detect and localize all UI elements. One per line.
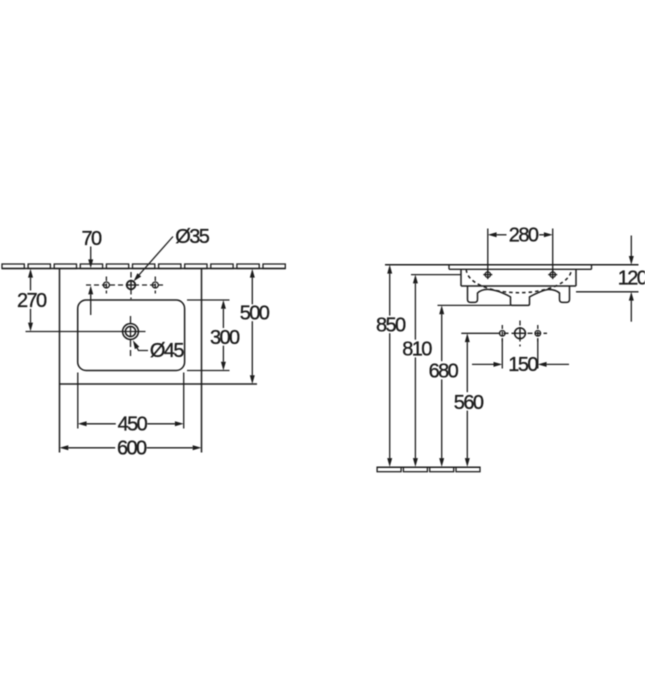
dimension 300 (plan view) bbox=[221, 300, 226, 371]
tap hole centerlines vertical (plan view) bbox=[106, 272, 155, 299]
dimension 810 extension line (front view) bbox=[411, 274, 461, 276]
dimension 560 (front view) bbox=[465, 333, 470, 467]
tap hole centerline horizontal (front view) bbox=[461, 332, 547, 334]
tap hole center (front view) bbox=[515, 328, 526, 339]
floor hatch bricks (front view) bbox=[377, 467, 480, 472]
drain centerline horizontal (plan view) bbox=[26, 331, 146, 333]
svg-text:270: 270 bbox=[17, 290, 47, 312]
tap hole left (front view) bbox=[500, 331, 506, 337]
dimension 500 (plan view) bbox=[250, 269, 255, 384]
svg-text:Ø35: Ø35 bbox=[175, 226, 209, 248]
svg-text:600: 600 bbox=[117, 437, 147, 459]
svg-text:70: 70 bbox=[81, 228, 102, 250]
svg-text:450: 450 bbox=[118, 413, 148, 435]
svg-text:560: 560 bbox=[454, 392, 484, 414]
drain centerline vertical (plan view) bbox=[130, 316, 132, 356]
svg-text:150: 150 bbox=[508, 354, 538, 376]
dimension 70 (plan view) bbox=[88, 247, 93, 316]
dimension 270 (plan view) bbox=[28, 269, 33, 332]
tap hole centerlines vertical (front view) bbox=[502, 321, 538, 347]
fixing hole right (front view) bbox=[548, 270, 557, 279]
svg-text:680: 680 bbox=[429, 361, 459, 383]
inner bowl rounded rectangle (plan view) bbox=[78, 300, 185, 371]
svg-text:300: 300 bbox=[210, 327, 240, 349]
dimension 120 bottom extension (front view) bbox=[576, 291, 639, 293]
fixing hole left (front view) bbox=[483, 270, 492, 279]
tap hole center cross (plan view) bbox=[126, 280, 136, 290]
dimension 280 extension lines (front view) bbox=[488, 229, 553, 272]
dimension 600 (plan view) bbox=[60, 445, 202, 450]
svg-text:850: 850 bbox=[376, 314, 406, 336]
dimension 680 extension line (front view) bbox=[438, 304, 511, 306]
dimension 680 (front view) bbox=[439, 305, 444, 467]
dimension 450 extension lines (plan view) bbox=[78, 373, 184, 429]
dimension 850 (front view) bbox=[387, 265, 392, 467]
washbasin outer rectangle (plan view) bbox=[60, 269, 258, 453]
tap hole centerline horizontal (plan view) bbox=[86, 284, 165, 286]
dimension 300 extension lines (plan view) bbox=[187, 300, 230, 371]
hidden bowl arc dashed (front view) bbox=[466, 269, 571, 292]
tap hole right (plan view) bbox=[152, 282, 158, 288]
top reference line (front view) bbox=[385, 264, 639, 266]
svg-text:280: 280 bbox=[509, 225, 539, 247]
svg-text:810: 810 bbox=[402, 339, 432, 361]
dimension 150 (front view) bbox=[472, 362, 569, 367]
svg-text:Ø45: Ø45 bbox=[150, 340, 184, 362]
floor face line (front view) bbox=[377, 466, 480, 468]
leader line Ø45 (plan view) bbox=[133, 340, 148, 350]
slab underside (front view) bbox=[449, 265, 592, 270]
dimension 280 (front view) bbox=[488, 232, 553, 237]
tap hole left (plan view) bbox=[103, 282, 109, 288]
dimension 450 (plan view) bbox=[78, 421, 184, 426]
tap hole right (front view) bbox=[535, 331, 541, 337]
wall face line (plan view) bbox=[2, 268, 286, 270]
svg-text:500: 500 bbox=[240, 302, 270, 324]
basin apron with feet and drain tab (front view) bbox=[468, 286, 570, 305]
wall hatch bricks (plan view) bbox=[2, 264, 285, 269]
svg-text:120: 120 bbox=[618, 267, 645, 289]
tap hole center Ø35 (plan view) bbox=[127, 281, 136, 290]
leader line Ø35 (plan view) bbox=[134, 237, 174, 282]
drain hole Ø45 (plan view) bbox=[123, 324, 139, 340]
tap hole center cross (front view) bbox=[514, 327, 526, 339]
dimension 150 extension lines (front view) bbox=[502, 339, 538, 369]
dimension 120 (front view) bbox=[629, 236, 634, 322]
dimension 810 (front view) bbox=[413, 275, 418, 467]
basin body (front view) bbox=[461, 269, 576, 286]
